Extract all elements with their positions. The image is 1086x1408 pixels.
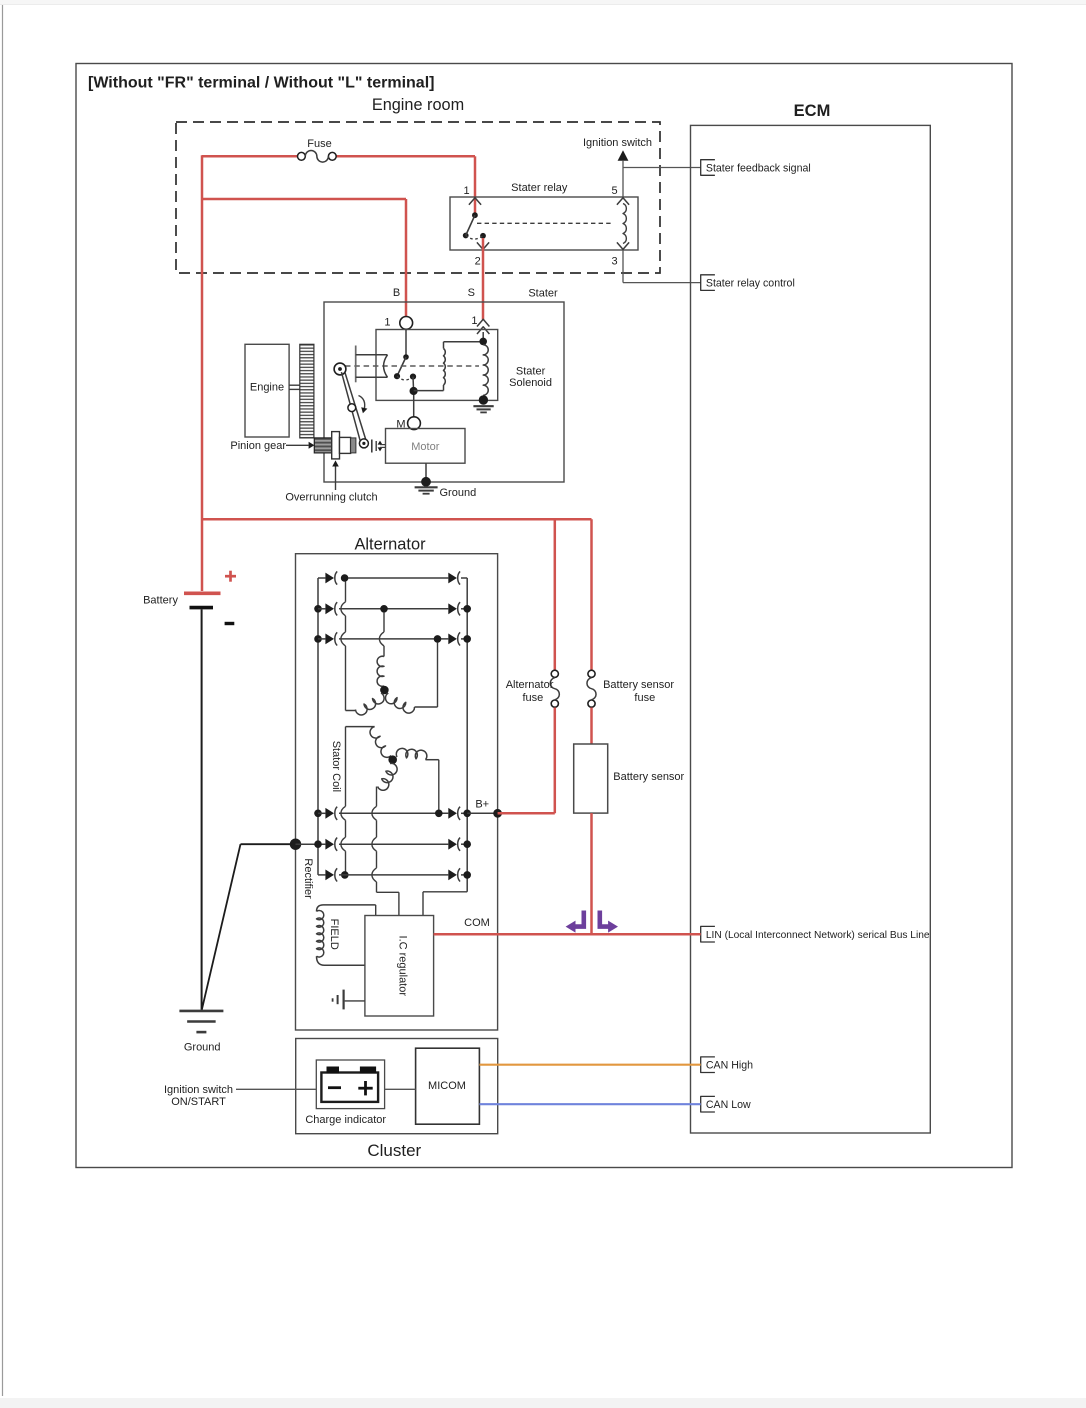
- svg-text:Battery sensor: Battery sensor: [603, 679, 674, 691]
- svg-text:Engine room: Engine room: [372, 96, 464, 114]
- svg-text:Alternator: Alternator: [506, 679, 554, 691]
- svg-text:Rectifier: Rectifier: [302, 858, 314, 899]
- svg-text:fuse: fuse: [523, 692, 544, 704]
- svg-text:Stator Coil: Stator Coil: [330, 741, 342, 792]
- svg-text:CAN Low: CAN Low: [706, 1099, 751, 1111]
- svg-text:Stater feedback signal: Stater feedback signal: [706, 162, 811, 174]
- svg-text:Battery: Battery: [143, 595, 178, 607]
- svg-text:CAN High: CAN High: [706, 1060, 753, 1072]
- svg-text:Engine: Engine: [250, 382, 284, 394]
- svg-text:I.C regulator: I.C regulator: [396, 936, 408, 997]
- svg-text:COM: COM: [464, 917, 490, 929]
- svg-text:1: 1: [384, 317, 390, 329]
- svg-text:3: 3: [611, 255, 617, 267]
- svg-text:Stater: Stater: [528, 288, 558, 300]
- svg-text:1: 1: [464, 185, 470, 197]
- svg-text:5: 5: [611, 185, 617, 197]
- svg-text:Charge indicator: Charge indicator: [305, 1114, 386, 1126]
- svg-text:fuse: fuse: [634, 692, 655, 704]
- svg-text:Stater relay control: Stater relay control: [706, 277, 795, 289]
- svg-text:B: B: [393, 287, 400, 299]
- svg-text:Alternator: Alternator: [354, 536, 426, 554]
- svg-text:Motor: Motor: [411, 441, 439, 453]
- svg-text:B+: B+: [475, 799, 489, 811]
- svg-text:Stater: Stater: [516, 366, 546, 378]
- svg-text:Fuse: Fuse: [307, 138, 331, 150]
- svg-text:ON/START: ON/START: [171, 1096, 226, 1108]
- svg-text:1: 1: [471, 315, 477, 327]
- svg-text:Battery sensor: Battery sensor: [613, 771, 684, 783]
- svg-text:MICOM: MICOM: [428, 1080, 466, 1092]
- svg-text:ECM: ECM: [794, 102, 831, 120]
- svg-text:Cluster: Cluster: [367, 1141, 421, 1160]
- svg-text:Overrunning clutch: Overrunning clutch: [285, 492, 377, 504]
- svg-text:FIELD: FIELD: [328, 919, 340, 950]
- svg-text:Ignition switch: Ignition switch: [583, 137, 652, 149]
- svg-text:Stater relay: Stater relay: [511, 182, 568, 194]
- svg-text:[Without "FR" terminal / Witho: [Without "FR" terminal / Without "L" ter…: [88, 74, 434, 91]
- svg-text:Ground: Ground: [440, 487, 477, 499]
- svg-text:Ignition switch: Ignition switch: [164, 1084, 233, 1096]
- svg-text:S: S: [468, 287, 475, 299]
- svg-text:Solenoid: Solenoid: [509, 377, 552, 389]
- svg-text:Ground: Ground: [184, 1042, 221, 1054]
- svg-text:Pinion gear: Pinion gear: [230, 440, 286, 452]
- svg-text:LIN (Local Interconnect Networ: LIN (Local Interconnect Network) serical…: [706, 930, 930, 941]
- svg-text:2: 2: [475, 255, 481, 267]
